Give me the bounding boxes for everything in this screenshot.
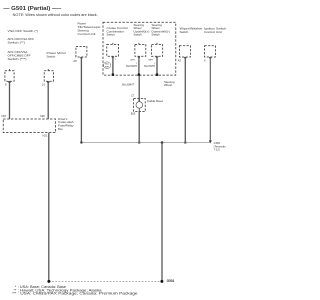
switch SW1 VSA OFF switch box [5,71,14,81]
svg-text:Wheel: Wheel [164,83,172,87]
note text [13,13,98,17]
junction power tilt wire / bus [80,141,82,143]
unit power tilt/telescopic steering control unit box [76,46,87,57]
pin 6 [204,58,206,62]
junction ground drop / bus [161,141,164,144]
terminal square down switch wire [156,74,158,76]
pin 10 [42,83,45,87]
svg-text:Control Unit: Control Unit [78,32,96,36]
svg-text:Switch (**): Switch (**) [8,40,26,44]
svg-text:— G501 (Partial) —–: — G501 (Partial) —– [3,6,61,12]
pin 1 down switch [148,59,156,65]
svg-text:G501: G501 [167,279,175,283]
wire color label BLU/WHT main [122,83,134,87]
label C409 (Terminals 7-12) [214,141,227,151]
svg-text:Cable Reel: Cable Reel [147,99,163,103]
wire color label BLU/WHT down switch [144,65,155,68]
switch SW4 steering wheel up(shift) switch box [135,43,146,57]
label G501 [167,279,175,283]
label Power Mirror Switch [47,51,67,59]
fuse box N07 label [2,114,7,118]
unit ignition switch control unit box [205,46,216,57]
pin A3 [178,58,182,62]
wire down switch to steering wheel boundary [156,56,158,74]
footnote asterisk 1 [15,285,66,289]
svg-text:***: *** [12,292,17,296]
wire power tilt unit to bus [80,57,82,143]
label steering wheel (assembly) [164,80,175,87]
pin 8 [5,83,7,87]
svg-text:BLU: BLU [105,64,109,66]
wire fuse box to ground bus left [48,133,50,282]
label cruise control combination switch [107,26,128,36]
wire cable reel to bus [138,111,140,142]
svg-text:N21: N21 [43,134,48,138]
svg-text:C7: C7 [131,93,135,97]
label steering wheel up(shift)(+) switch [134,23,150,37]
terminal square up switch wire [138,74,140,76]
junction wiper wire / bus [184,141,187,144]
wire wiper/washer switch to bus [184,57,186,143]
svg-text:: USA: CMBS/PAX Package; Canad: : USA: CMBS/PAX Package; Canada: Premium… [18,292,138,296]
wire power mirror switch to fuse box [47,69,49,119]
svg-text:Switch: Switch [47,54,56,58]
label Ignition Switch Control Unit [204,27,226,35]
svg-text:Box: Box [58,127,63,131]
svg-text:WHT: WHT [105,66,110,68]
wire up switch to steering wheel boundary [138,56,140,74]
footnote asterisk 2 [14,288,102,292]
svg-text:BLU/WHT: BLU/WHT [126,65,137,68]
switch SW3 cruise control combination switch box [107,43,119,57]
label steering wheel down(shift)(-) switch [152,23,171,37]
switch SW5 steering wheel down(shift) switch box [152,43,163,57]
switch SW2 power mirror switch box [44,71,53,81]
pin B15 [131,111,136,115]
label Wiper/Washer Switch [180,27,203,35]
assembly steering wheel outer dashed box [103,22,176,75]
wire VSA switch to fuse box [8,69,10,119]
wire bus to ground point [161,143,163,282]
fuse/relay box driver's under-dash [3,119,55,133]
junction cable reel wire / bus [138,141,141,144]
svg-text:X28: X28 [40,114,45,118]
pin 1 up switch [130,59,138,65]
pin 1 cruise switch [115,59,117,61]
svg-text:Switch (***): Switch (***) [8,57,27,61]
svg-text:Switch: Switch [107,33,116,37]
svg-text:WHT: WHT [148,59,153,61]
wire ignition switch control unit down [209,57,211,141]
svg-text:NOTE: Wires shown without colo: NOTE: Wires shown without color codes ar… [13,13,98,17]
fuse box N21 label [43,134,48,138]
svg-text:N07: N07 [2,114,7,118]
svg-text:A3: A3 [178,58,182,62]
ground point right G501 [160,280,163,283]
cable reel [134,98,146,111]
svg-text:A8: A8 [73,59,77,63]
svg-text:7-12): 7-12) [214,147,220,151]
title G501 (Partial) [3,6,61,12]
svg-text:WHT: WHT [130,59,135,61]
wire cruise switch to steering wheel boundary [112,56,114,74]
svg-text:BLU/WHT: BLU/WHT [144,65,155,68]
label Power Tilt/Telescopic Steering Control Unit [78,22,102,37]
label AFS OFF/VSA OFF Switch [8,37,35,45]
svg-text:Control Unit: Control Unit [204,30,222,34]
wire color label BLU/WHT up switch [126,65,137,68]
svg-text:BLU/WHT: BLU/WHT [122,83,134,87]
svg-text:B15: B15 [131,111,136,115]
wire steering wheel to cable reel [138,76,140,102]
connector bubble BLU/WHT [103,62,110,69]
svg-text:Switch: Switch [134,33,143,37]
svg-text:Switch: Switch [152,33,161,37]
svg-text:VSA OFF Switch (*): VSA OFF Switch (*) [8,29,39,33]
pin A8 [73,59,77,63]
label VSA OFF Switch [8,29,39,33]
terminal square cruise wire [112,74,114,76]
footnote asterisk 3 [12,292,138,296]
arrow to C409 [209,140,212,143]
svg-text:Switch: Switch [180,30,189,34]
fuse box X28 label [40,114,45,118]
label AFS OFF/VSA OFF/CMBS OFF Switch [8,50,31,61]
connector C7 label [131,93,135,97]
ground point left [47,280,50,283]
label cable reel [147,99,163,103]
label driver's under-dash fuse/relay box [58,117,74,131]
ground bus horizontal [81,142,210,144]
switch SW6 wiper/washer switch box [179,46,190,57]
ground link dashed [49,280,162,282]
